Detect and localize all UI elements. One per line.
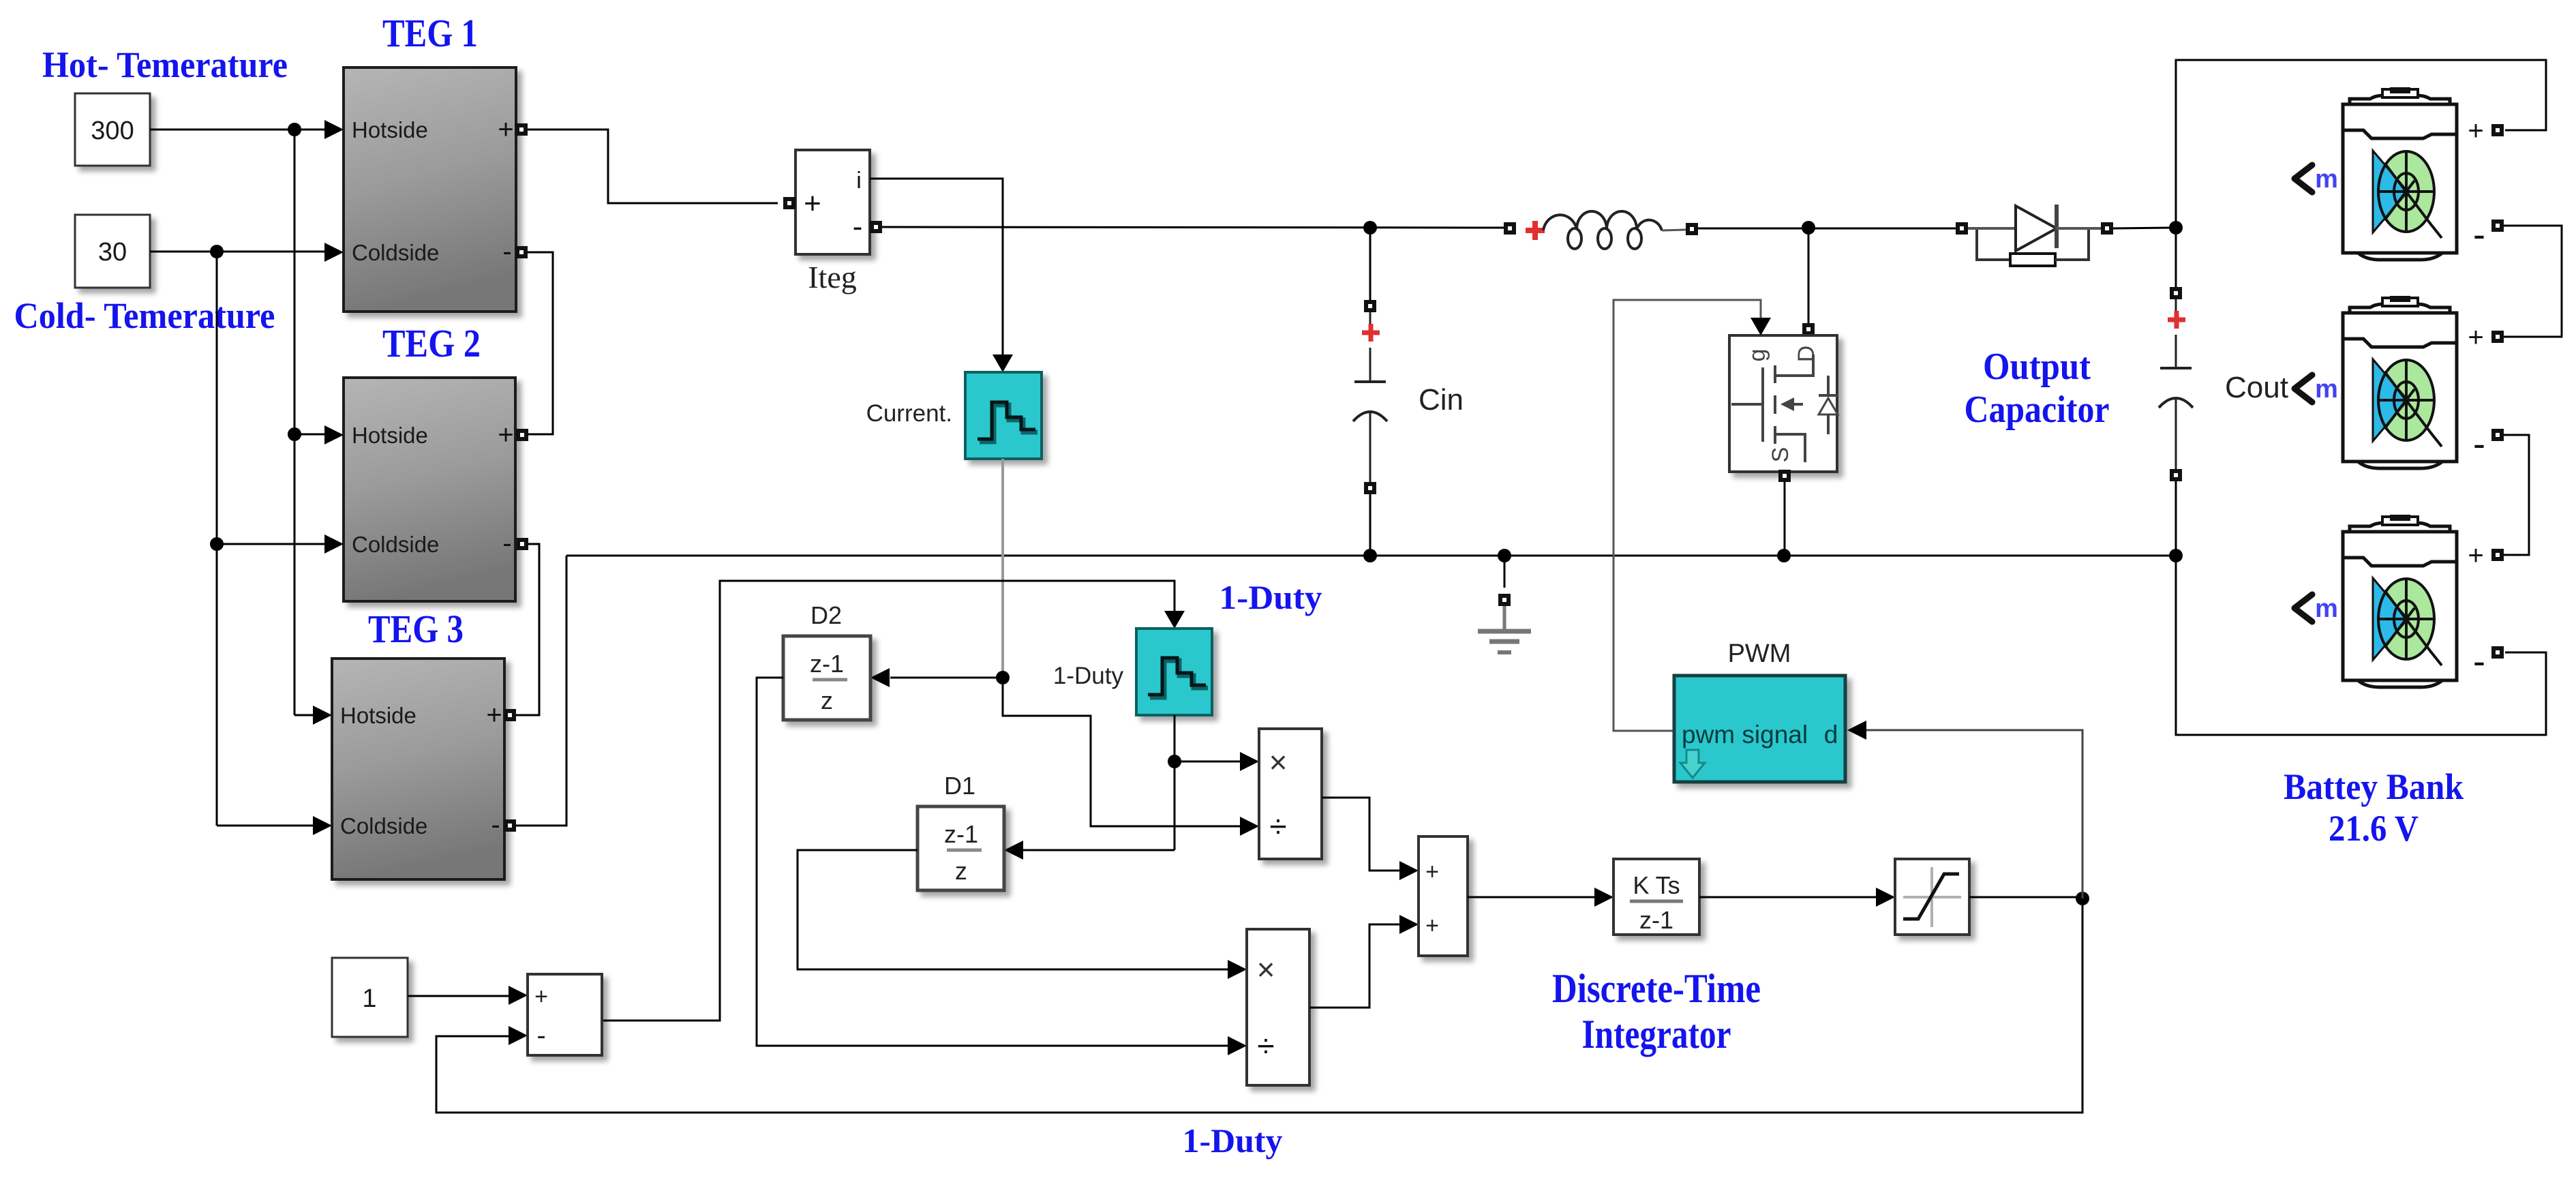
svg-text:Coldside: Coldside [340,813,427,839]
MOSFET internals [1731,354,1828,462]
node C (cold line junction at TEG1) [210,245,224,258]
svg-text:-: - [2473,641,2485,682]
svg-text:Discrete-Time: Discrete-Time [1552,966,1761,1011]
svg-text:TEG 1: TEG 1 [382,11,478,55]
svg-text:+: + [1425,859,1439,885]
wire top rail to Cin [1369,228,1372,300]
subsystem TEG 3 [332,659,504,879]
wire Cin plus to plate [1369,348,1372,382]
svg-text:÷: ÷ [1269,809,1286,844]
svg-text:PWM: PWM [1728,639,1791,668]
wire Cout arc to port [2175,398,2177,469]
port TEG3 + [504,709,516,721]
subsystem TEG 2 [344,378,515,601]
svg-text:pwm signal: pwm signal [1682,721,1808,749]
wire cold line vertical [216,252,218,826]
wire PWM output to MOSFET gate [1613,300,1761,731]
scope Current. step icon [980,405,1037,442]
wire cold line to TEG2 Coldside [217,543,324,545]
wire product1 out to sum [1322,798,1399,871]
transistor MOSFET [1729,335,1837,472]
node K (output positive node) [2169,221,2183,235]
svg-text:×: × [1257,952,1275,987]
port B3 + [2491,549,2504,561]
svg-text:-: - [502,528,511,558]
port B1 + [2491,124,2504,136]
node J (MOSFET drain node) [1802,221,1815,235]
svg-text:K Ts: K Ts [1633,871,1680,899]
svg-text:S: S [1768,447,1793,463]
svg-text:+: + [486,700,502,730]
wire cold line to TEG3 Coldside [217,825,313,827]
port MOSFET D [1802,323,1815,335]
svg-text:Coldside: Coldside [352,532,439,557]
port Iteg + [783,197,795,209]
constant block 300 (hot temperature) [75,93,150,166]
node N (duty node) [2076,892,2089,905]
svg-text:Capacitor: Capacitor [1965,389,2110,431]
svg-text:Current.: Current. [866,400,952,427]
saturation icon [1930,867,1933,927]
svg-text:+: + [498,420,513,450]
battery measurement chevrons m [2294,165,2312,192]
wire battery1 - to battery2 + [2504,226,2562,337]
port diode out [2101,222,2113,235]
inductor L [1543,211,1662,230]
svg-text:Cout: Cout [2225,371,2288,404]
wire duty to product1 times [1175,761,1240,763]
svg-text:i: i [856,168,862,194]
svg-text:z: z [821,686,833,714]
battery B1 [2343,88,2457,260]
svg-text:z-1: z-1 [944,820,978,848]
wire Cin to ground bus [1369,494,1372,556]
svg-text:g: g [1744,349,1770,362]
svg-text:+: + [498,115,513,145]
block D2 (z-1/z) [783,636,870,720]
node E (Cin bottom node) [1363,549,1377,562]
wire Cin arc to port [1369,412,1372,482]
svg-text:1-Duty: 1-Duty [1219,578,1322,616]
sum block (1 - Duty) [528,974,602,1055]
wire current to product1 divide [1003,678,1240,826]
port Cin bottom [1364,482,1376,494]
svg-text:-: - [536,1021,545,1051]
node D (cold line junction at TEG2) [210,537,224,551]
wire constant 1 to subtract [408,995,509,997]
svg-text:Hot- Temerature: Hot- Temerature [42,44,288,85]
svg-text:Hotside: Hotside [352,117,428,142]
wire current signal behind scope [1001,459,1004,671]
svg-text:+: + [2468,322,2483,352]
product block 2 (x, divide) [1247,929,1309,1085]
wire negative bus to battery3 - [2176,556,2546,735]
wire D1 output to product2 times [798,850,1228,969]
svg-text:Coldside: Coldside [352,240,439,265]
wire 1-Duty branch below scope [1174,715,1176,850]
svg-text:+: + [2468,116,2483,146]
svg-text:d: d [1824,721,1838,749]
svg-text:-: - [2473,214,2485,255]
svg-text:TEG 3: TEG 3 [368,607,464,651]
wire saturation output [1969,896,2082,898]
svg-text:30: 30 [98,238,127,267]
constant block 1 [332,958,408,1037]
svg-text:D1: D1 [944,772,975,800]
svg-text:+: + [1425,913,1439,939]
wire constant 30 to TEG1 Coldside [150,251,324,253]
node A (hot line junction at TEG1) [288,123,301,136]
block D1 (z-1/z) [918,806,1004,890]
battery B2 [2343,297,2457,468]
product block (dI x / dD divide) [1259,729,1322,859]
wire Iteg - to inductor (top rail left) [882,227,1504,228]
subsystem PWM [1674,676,1845,782]
wire positive bus to battery1 + [2176,60,2546,228]
node G (MOSFET source node) [1777,549,1791,562]
wire TEG3 - to ground bus [516,556,566,826]
port MOSFET S [1778,470,1791,482]
svg-text:z-1: z-1 [1639,906,1673,934]
wire Cout plus to plate [2175,335,2177,368]
scope 1-Duty step icon [1150,661,1208,697]
port TEG1 + [515,123,528,136]
subsystem TEG 1 [344,67,516,312]
svg-text:1-Duty: 1-Duty [1053,663,1124,689]
scope Current. [965,372,1042,459]
svg-text:z-1: z-1 [810,650,844,678]
svg-text:D: D [1793,346,1819,363]
wire inductor to right port [1662,230,1686,230]
node L (current branch node) [996,671,1010,684]
node I (Cin top node) [1363,221,1377,235]
discrete-time integrator block [1613,859,1699,935]
wire integrator to saturation [1699,896,1876,898]
wire battery2 - to battery3 + [2504,435,2529,555]
port B1 - [2491,220,2504,232]
port B3 - [2491,646,2504,659]
svg-text:TEG 2: TEG 2 [382,321,481,365]
svg-text:Output: Output [1983,346,2091,388]
svg-text:Hotside: Hotside [340,703,416,728]
wire duty feedback to PWM d [1866,730,2082,898]
wire TEG1 + to Iteg + [528,130,778,203]
svg-text:×: × [1269,744,1288,780]
wire ground bus [566,555,2176,557]
PWM arrow icon [1680,750,1705,778]
wire current to D2 input [890,677,1003,679]
svg-text:Cold- Temerature: Cold- Temerature [14,295,275,336]
port inductor right [1686,223,1698,235]
wire product2 out to sum [1309,924,1399,1008]
wire Cout to negative node [2175,481,2177,556]
port TEG3 - [504,819,516,832]
svg-text:+: + [2468,541,2483,571]
svg-text:-: - [853,210,863,243]
svg-text:1-Duty: 1-Duty [1183,1121,1283,1160]
scope 1-Duty [1136,629,1212,715]
svg-text:1: 1 [362,984,376,1013]
wire TEG2 - to TEG3 + [516,544,539,715]
port B2 + [2491,331,2504,343]
wire hot line vertical [294,130,296,715]
wire D2 output to product2 divide [757,678,1228,1046]
svg-text:m: m [2315,594,2338,623]
svg-text:-: - [2473,423,2485,464]
port Cin top [1364,300,1376,312]
svg-text:-: - [502,237,511,267]
wire TEG1 - to TEG2 + [528,252,553,434]
port diode in [1956,222,1968,235]
port B2 - [2491,429,2504,441]
svg-text:m: m [2315,375,2338,404]
sum block (add) [1419,836,1468,956]
port TEG1 - [515,246,528,258]
wire inductor to diode (top rail mid) [1698,228,1956,230]
current measurement Iteg [795,150,870,254]
wire Cin port to plus [1369,312,1372,325]
svg-text:Battey Bank: Battey Bank [2284,766,2464,807]
wire sum to integrator [1468,896,1594,898]
port TEG2 - [516,538,528,550]
resistor (diode snubber) [1977,230,2010,260]
svg-text:Hotside: Hotside [352,423,428,448]
svg-text:z: z [955,857,967,885]
wire diode to output node [2113,228,2176,228]
svg-text:Cin: Cin [1419,383,1464,417]
port ground [1498,594,1511,606]
wire hot line to TEG2 Hotside [294,434,324,436]
node H (output negative node) [2169,549,2183,562]
port Cout bottom [2170,469,2182,481]
svg-text:+: + [534,984,548,1010]
svg-text:Iteg: Iteg [808,260,857,294]
wire Cout port to plus [2175,299,2177,312]
wire duty to subtract (bottom feedback) [436,898,2082,1113]
constant block 30 (cold temperature) [75,215,150,288]
node F (ground stub node) [1498,549,1511,562]
battery B3 [2343,515,2457,687]
svg-text:+: + [804,187,821,220]
wire duty to D1 input [1023,849,1175,851]
node B (hot line junction at TEG2) [288,427,301,441]
wire ground stub [1504,556,1506,588]
wire Iteg i output to Current scope [870,179,1003,356]
wire hot line to TEG3 Hotside [294,714,313,716]
wire 1-Duty signal to scope [602,581,1175,1021]
port TEG2 + [516,429,528,441]
svg-text:÷: ÷ [1257,1028,1274,1063]
svg-text:D2: D2 [810,601,842,629]
node M (duty branch node) [1168,755,1181,768]
port inductor left [1504,222,1516,235]
label red plus (inductor input polarity) [1526,221,1545,240]
svg-text:21.6 V: 21.6 V [2329,808,2419,849]
port Cout top [2170,287,2182,299]
port Iteg - [870,221,882,233]
svg-text:Integrator: Integrator [1582,1012,1731,1057]
svg-text:m: m [2315,165,2338,194]
svg-text:300: 300 [91,117,134,145]
wire drain wire [1808,228,1810,323]
wire output node to Cout [2175,228,2177,287]
saturation block [1895,859,1969,935]
wire constant 300 to TEG1 Hotside [150,129,324,131]
svg-text:-: - [491,810,500,840]
wire source wire [1784,482,1786,556]
